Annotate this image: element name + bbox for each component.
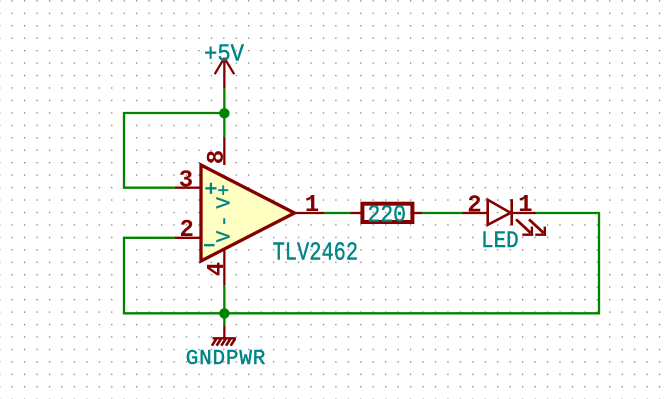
svg-text:2: 2: [467, 193, 481, 220]
svg-text:2: 2: [180, 217, 194, 244]
svg-text:1: 1: [305, 192, 319, 219]
svg-text:GNDPWR: GNDPWR: [186, 348, 266, 371]
svg-text:4: 4: [204, 262, 231, 276]
svg-text:LED: LED: [481, 228, 518, 254]
svg-text:3: 3: [179, 167, 193, 194]
svg-text:+5V: +5V: [204, 42, 245, 69]
svg-text:1: 1: [518, 192, 532, 219]
svg-text:220: 220: [368, 202, 407, 229]
svg-text:TLV2462: TLV2462: [273, 237, 359, 267]
svg-text:8: 8: [204, 150, 231, 164]
svg-text:V+: V+: [214, 185, 236, 209]
